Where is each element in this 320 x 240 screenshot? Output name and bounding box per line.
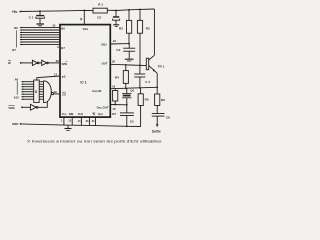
pin number 20 (left) bbox=[56, 59, 60, 63]
svg-text:16: 16 bbox=[112, 84, 116, 88]
wire decoder outputs (8 lines) bbox=[39, 82, 43, 100]
pin number 19 bbox=[113, 39, 117, 43]
ground (C1) bbox=[36, 24, 44, 26]
wire data bus B0-B7 (8 lines) bbox=[20, 27, 60, 45]
svg-text:R4: R4 bbox=[115, 76, 119, 80]
svg-text:C3: C3 bbox=[116, 48, 120, 52]
pin labels bottom inside bbox=[62, 112, 103, 116]
svg-text:GND: GND bbox=[12, 122, 18, 126]
IC1 reference label bbox=[80, 81, 86, 85]
svg-text:IC 1: IC 1 bbox=[80, 81, 86, 85]
svg-text:B0: B0 bbox=[61, 26, 65, 30]
capacitor C1 bbox=[29, 10, 45, 23]
inverter (X) enable bbox=[30, 104, 38, 110]
inverter (X) first bbox=[32, 60, 39, 65]
wire gate output to CS pin bbox=[54, 93, 60, 95]
pin numbers bottom bbox=[61, 119, 95, 123]
svg-text:Vss: Vss bbox=[62, 112, 67, 116]
ground (C2) bbox=[113, 25, 119, 27]
resistor R4 bbox=[115, 65, 129, 88]
pin number 15 bbox=[112, 107, 116, 111]
pin label CS inside bbox=[62, 92, 66, 97]
svg-text:Vdd: Vdd bbox=[83, 27, 89, 31]
wire rail right of R1 bbox=[107, 9, 154, 11]
pin label OUT inside bbox=[102, 62, 108, 66]
svg-text:15: 15 bbox=[112, 107, 116, 111]
wire VMA row bbox=[22, 106, 30, 108]
wire phi2 row bbox=[37, 76, 60, 81]
svg-text:VMA: VMA bbox=[8, 106, 15, 110]
wire W-bar row bbox=[21, 62, 33, 64]
resistor R6 bbox=[155, 94, 166, 113]
node A0 bus labels bbox=[14, 77, 20, 99]
resistor R5 bbox=[138, 88, 149, 127]
svg-text:16: 16 bbox=[54, 90, 58, 94]
resistor R7 label bbox=[112, 112, 116, 116]
svg-text:B7: B7 bbox=[12, 48, 16, 52]
wire Vdd stub bbox=[80, 10, 85, 25]
resistor R2 bbox=[119, 9, 132, 44]
node GND input bbox=[12, 122, 22, 126]
capacitor C2 bbox=[97, 10, 120, 25]
svg-text:R6: R6 bbox=[161, 98, 165, 102]
svg-text:19: 19 bbox=[113, 39, 117, 43]
node B0 bus labels bbox=[12, 26, 18, 52]
crystal Q1 bbox=[122, 88, 135, 104]
wire inverter to pin R/W bbox=[48, 62, 59, 64]
inverter (X) second bbox=[42, 60, 49, 65]
pin number 17 bbox=[54, 72, 58, 76]
svg-text:C2: C2 bbox=[97, 16, 101, 20]
pin number 20 bbox=[112, 60, 116, 64]
wire inverter to gate bbox=[38, 101, 47, 107]
svg-text:17: 17 bbox=[54, 72, 58, 76]
svg-text:C 1: C 1 bbox=[29, 15, 34, 19]
resistor R1 bbox=[93, 3, 107, 13]
pin 15 wire Osc OUT bbox=[110, 104, 127, 106]
node Sortie output bbox=[152, 124, 161, 133]
capacitor C6 bbox=[152, 114, 170, 125]
svg-text:B7: B7 bbox=[61, 46, 65, 50]
svg-text:INB: INB bbox=[69, 112, 74, 116]
pin number 16 (left) bbox=[54, 90, 58, 94]
node +5v label bbox=[12, 10, 18, 14]
capacitor C5 bbox=[120, 105, 134, 127]
svg-text:W: W bbox=[8, 61, 11, 65]
pin 16 wire Gen IN bbox=[110, 87, 157, 89]
svg-text:Sortie: Sortie bbox=[152, 129, 161, 133]
wire address bus into decoder (8 lines) bbox=[21, 81, 34, 100]
svg-text:CLK: CLK bbox=[78, 112, 83, 116]
svg-text:R3: R3 bbox=[146, 27, 150, 31]
svg-text:A0: A0 bbox=[15, 77, 19, 81]
capacitor C4 bbox=[134, 65, 150, 87]
capacitor C3 bbox=[116, 44, 135, 59]
pin label B7 inside bbox=[61, 46, 65, 50]
svg-text:20: 20 bbox=[112, 60, 116, 64]
svg-text:Gen.IN: Gen.IN bbox=[92, 89, 101, 93]
svg-text:10: 10 bbox=[52, 24, 56, 28]
svg-text:R 1: R 1 bbox=[98, 3, 103, 7]
svg-text:ADJ: ADJ bbox=[101, 42, 107, 46]
resistor R7 bbox=[113, 89, 118, 106]
wire emitter drop bbox=[156, 73, 158, 94]
wire rail drop to collector bbox=[153, 9, 155, 55]
pin label Vdd bbox=[83, 27, 89, 31]
svg-text:+5v.: +5v. bbox=[12, 10, 18, 14]
svg-text:R2: R2 bbox=[119, 27, 123, 31]
pin label Osc OUT inside bbox=[97, 106, 109, 110]
svg-text:A15: A15 bbox=[14, 96, 20, 100]
svg-text:TR 1: TR 1 bbox=[158, 64, 165, 68]
pin 20 wire OUT bbox=[110, 64, 146, 66]
transistor TR1 bbox=[146, 55, 164, 73]
svg-text:C 4: C 4 bbox=[145, 80, 150, 84]
svg-text:Osc.OUT: Osc.OUT bbox=[97, 106, 109, 110]
node VMA-bar input bbox=[8, 105, 23, 110]
pin label ADJ inside bbox=[101, 42, 107, 46]
svg-text:20: 20 bbox=[56, 59, 60, 63]
svg-text:C6: C6 bbox=[166, 115, 170, 119]
pin label Gen IN inside bbox=[92, 89, 101, 93]
decoder block X bbox=[34, 80, 40, 102]
svg-text:B0: B0 bbox=[14, 26, 18, 30]
AND gate U2 bbox=[44, 81, 54, 103]
svg-text:X: X bbox=[35, 89, 38, 94]
pin number 10 bbox=[52, 24, 56, 28]
pin number 16 bbox=[112, 84, 116, 88]
resistor R3 bbox=[137, 9, 150, 66]
ground symbol (main) bbox=[65, 125, 72, 130]
pin 19 wire ADJ bbox=[110, 43, 130, 45]
svg-text:R5: R5 bbox=[145, 98, 149, 102]
svg-text:R/W: R/W bbox=[62, 62, 68, 66]
svg-text:φ2: φ2 bbox=[62, 75, 66, 79]
IC1 package outline bbox=[60, 25, 110, 118]
wire +5v rail bbox=[20, 10, 94, 11]
svg-text:CS: CS bbox=[62, 92, 66, 96]
wire ground rail bbox=[21, 124, 141, 127]
svg-text:R7: R7 bbox=[112, 112, 116, 116]
svg-text:Q1: Q1 bbox=[130, 89, 134, 93]
pin label R/W inside bbox=[62, 61, 68, 66]
pin label B0 inside bbox=[61, 26, 65, 30]
IC bottom pin stubs bbox=[64, 117, 96, 126]
svg-text:C5: C5 bbox=[130, 119, 134, 123]
svg-text:X Inverseurs à insérer ou non: X Inverseurs à insérer ou non selon les … bbox=[27, 140, 162, 144]
svg-text:Test: Test bbox=[98, 112, 103, 116]
pin number 3 bbox=[57, 45, 59, 49]
svg-text:OUT: OUT bbox=[102, 62, 108, 66]
ground (C3) bbox=[125, 59, 134, 61]
node W-bar input bbox=[8, 60, 22, 65]
wire between inverters bbox=[39, 62, 42, 64]
pin label phi2 inside bbox=[62, 75, 66, 79]
